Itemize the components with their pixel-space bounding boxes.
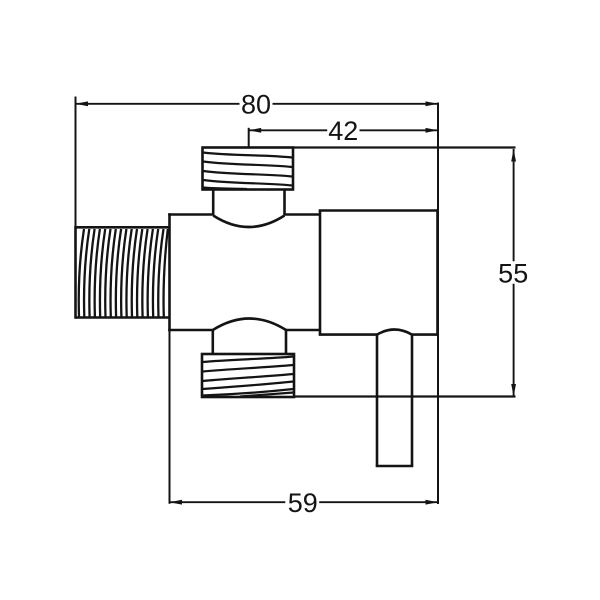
bonnet dome arc	[213, 216, 284, 228]
packing nut dome arc	[213, 319, 286, 331]
inlet threaded pipe	[76, 226, 170, 319]
right housing box	[319, 209, 439, 336]
inlet thread hatch	[79, 229, 168, 317]
dimension 59: line and arrows	[170, 501, 439, 503]
dimension 42: line and arrows	[249, 129, 438, 131]
svg-text:42: 42	[328, 116, 358, 146]
outlet pipe	[376, 330, 414, 467]
handle cap (knurled bonnet cap)	[203, 148, 294, 190]
svg-text:80: 80	[241, 90, 271, 120]
svg-text:55: 55	[498, 258, 528, 288]
bonnet neck (top)	[213, 190, 284, 216]
dimension 59: extension line left (body edge extended)	[169, 331, 171, 504]
dimension 80: line and arrows	[76, 103, 439, 105]
valve body	[168, 213, 320, 331]
svg-text:59: 59	[288, 488, 318, 518]
dimension 80: extension line left	[75, 97, 77, 228]
bottom extension line (nut bottom to 55 dim)	[294, 395, 516, 397]
dimension 80: extension line right (shared with 42 and 59)	[437, 103, 439, 505]
dimension 42: stub extension at stem axis	[248, 128, 250, 148]
packing nut neck (bottom)	[213, 330, 286, 354]
packing nut (knurled)	[202, 354, 294, 397]
top plate edge / 55 top extension line	[293, 146, 516, 148]
dimension 55: line and arrows	[513, 149, 515, 397]
